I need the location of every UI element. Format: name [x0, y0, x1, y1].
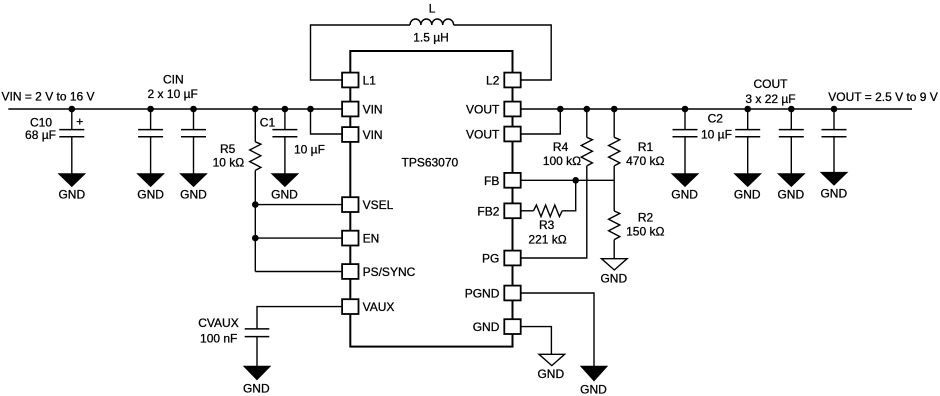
pin box FB2 (right) — [504, 203, 520, 218]
wire PGND — [521, 293, 594, 366]
wire input rail VIN — [8, 108, 342, 110]
pin box VIN (left) — [342, 102, 358, 117]
wire EN — [255, 237, 342, 239]
svg-text:C2: C2 — [708, 111, 724, 125]
resistor R1 — [609, 137, 620, 166]
svg-text:GND: GND — [58, 188, 85, 202]
pin box GND (right) — [504, 319, 520, 334]
svg-text:VOUT: VOUT — [466, 103, 500, 117]
wire R5 bottom to PS/SYNC — [254, 170, 256, 271]
node junction VIN2 branch — [307, 106, 314, 113]
svg-text:150 kΩ: 150 kΩ — [626, 225, 664, 239]
wire R2 bottom lead — [613, 240, 615, 259]
ground GND C10 — [59, 174, 85, 187]
svg-text:L: L — [429, 2, 436, 16]
svg-text:GND: GND — [180, 188, 207, 202]
svg-text:VIN: VIN — [363, 128, 383, 142]
node junction VOUT2 — [557, 106, 564, 113]
svg-text:TPS63070: TPS63070 — [402, 156, 459, 170]
node junction C10 — [69, 106, 76, 113]
svg-text:68 µF: 68 µF — [25, 128, 56, 142]
svg-text:VAUX: VAUX — [363, 300, 395, 314]
node junction C1 — [282, 106, 289, 113]
svg-text:VOUT: VOUT — [466, 128, 500, 142]
svg-text:GND: GND — [820, 186, 847, 200]
wire VIN2 branch — [311, 109, 343, 134]
ground GND COUT2 — [778, 174, 804, 187]
resistor R2 — [609, 211, 620, 240]
node junction COUT2 — [788, 106, 795, 113]
svg-text:10 kΩ: 10 kΩ — [213, 155, 245, 169]
wire L2 lead — [454, 25, 552, 80]
wire R1 bottom lead — [613, 166, 615, 180]
node junction EN — [252, 235, 259, 242]
pin box VIN (left) — [342, 127, 358, 142]
wire FB — [521, 179, 615, 181]
node junction C2 — [682, 106, 689, 113]
svg-text:C10: C10 — [30, 115, 52, 129]
svg-text:COUT: COUT — [754, 77, 789, 91]
wire R4 bottom to PG — [521, 166, 587, 258]
svg-text:100 kΩ: 100 kΩ — [543, 154, 581, 168]
svg-text:GND: GND — [137, 188, 164, 202]
wire R2 top lead — [613, 180, 615, 211]
svg-text:EN: EN — [363, 232, 380, 246]
capacitor COUT unit 1 — [747, 109, 749, 130]
svg-text:VSEL: VSEL — [363, 198, 394, 212]
wire R4 top lead — [586, 109, 588, 137]
node junction FB — [572, 177, 579, 184]
ground GND COUT1 — [735, 174, 761, 187]
capacitor COUT unit 3 — [833, 109, 835, 130]
svg-text:GND: GND — [271, 187, 298, 201]
ground GND CVAUX — [244, 366, 270, 379]
wire PS/SYNC — [255, 271, 342, 273]
ground GND CIN1 — [138, 174, 164, 187]
svg-text:FB2: FB2 — [477, 204, 499, 218]
ground GND pin symbol — [539, 354, 565, 365]
svg-text:PGND: PGND — [465, 287, 500, 301]
svg-text:R4: R4 — [553, 140, 569, 154]
pin box L1 (left) — [342, 73, 358, 88]
node junction CIN1 — [147, 106, 154, 113]
ground GND R2 — [602, 259, 628, 270]
svg-text:FB: FB — [484, 174, 499, 188]
resistor R4 — [581, 137, 592, 166]
svg-text:R5: R5 — [220, 142, 236, 156]
node junction CIN2 — [190, 106, 197, 113]
pin box EN (left) — [342, 231, 358, 246]
svg-text:R2: R2 — [638, 210, 654, 224]
wire VAUX — [257, 307, 342, 329]
node junction R1 top — [611, 106, 618, 113]
svg-text:C1: C1 — [260, 116, 276, 130]
svg-text:L1: L1 — [363, 74, 377, 88]
wire output rail VOUT — [521, 108, 912, 110]
svg-text:GND: GND — [600, 272, 627, 286]
svg-text:GND: GND — [734, 188, 761, 202]
wire FB2 lead — [521, 210, 534, 212]
capacitor CIN unit 1 — [150, 109, 152, 130]
svg-text:VIN = 2 V to 16 V: VIN = 2 V to 16 V — [2, 89, 95, 103]
svg-text:GND: GND — [243, 381, 270, 395]
svg-text:R3: R3 — [539, 218, 555, 232]
svg-text:CIN: CIN — [163, 73, 184, 87]
op-amp U1 TPS63070 body — [350, 51, 512, 347]
svg-text:1.5 µH: 1.5 µH — [413, 30, 449, 44]
ground GND C1 — [272, 174, 298, 187]
capacitor COUT unit 2 — [790, 109, 792, 130]
svg-text:2 x 10 µF: 2 x 10 µF — [148, 87, 198, 101]
svg-text:10 µF: 10 µF — [294, 142, 325, 156]
node junction COUT1 — [744, 106, 751, 113]
svg-text:GND: GND — [777, 188, 804, 202]
node junction R5 top — [252, 106, 259, 113]
node junction R4 top — [584, 106, 591, 113]
svg-text:PS/SYNC: PS/SYNC — [363, 265, 416, 279]
svg-text:L2: L2 — [486, 74, 500, 88]
pin box L2 (right) — [504, 73, 520, 88]
pin box VAUX (left) — [342, 299, 358, 314]
svg-text:100 nF: 100 nF — [200, 331, 237, 345]
pin box PG (right) — [504, 251, 520, 266]
svg-text:GND: GND — [671, 188, 698, 202]
resistor R3 — [534, 205, 563, 217]
svg-text:+: + — [76, 114, 83, 128]
svg-text:470 kΩ: 470 kΩ — [626, 154, 664, 168]
svg-text:3 x 22 µF: 3 x 22 µF — [745, 92, 795, 106]
svg-text:10 µF: 10 µF — [701, 128, 732, 142]
svg-text:GND: GND — [537, 367, 564, 381]
node junction COUT3 — [831, 106, 838, 113]
wire VSEL — [255, 204, 342, 206]
ground GND PGND — [581, 366, 607, 381]
wire GND pin — [521, 327, 552, 355]
resistor R5 — [250, 142, 261, 171]
ground GND C2 — [672, 174, 698, 187]
pin box PGND (right) — [504, 286, 520, 301]
pin box VOUT (right) — [504, 127, 520, 142]
node junction VSEL — [252, 201, 259, 208]
pin box VOUT (right) — [504, 102, 520, 117]
pin box FB (right) — [504, 173, 520, 188]
wire R3 to FB — [562, 180, 576, 211]
ground GND CIN2 — [180, 174, 206, 187]
svg-text:PG: PG — [482, 252, 499, 266]
svg-text:CVAUX: CVAUX — [198, 316, 238, 330]
capacitor CVAUX — [245, 328, 270, 330]
wire R1 top lead — [613, 109, 615, 137]
wire VOUT2 branch — [521, 109, 561, 134]
capacitor CIN unit 2 — [193, 109, 195, 130]
pin box PS/SYNC (left) — [342, 264, 358, 279]
capacitor C1 — [284, 109, 286, 130]
svg-text:221 kΩ: 221 kΩ — [528, 232, 566, 246]
svg-text:GND: GND — [473, 320, 500, 334]
svg-text:GND: GND — [580, 382, 607, 396]
inductor L — [410, 19, 454, 25]
svg-text:VOUT = 2.5 V to 9 V: VOUT = 2.5 V to 9 V — [828, 90, 938, 104]
svg-text:R1: R1 — [638, 140, 654, 154]
svg-text:VIN: VIN — [363, 103, 383, 117]
wire L1 lead — [311, 25, 411, 80]
capacitor C10 — [71, 109, 73, 130]
capacitor C2 — [684, 109, 686, 130]
ground GND COUT3 — [821, 172, 847, 185]
wire R5 top lead — [254, 109, 256, 142]
pin box VSEL (left) — [342, 197, 358, 212]
